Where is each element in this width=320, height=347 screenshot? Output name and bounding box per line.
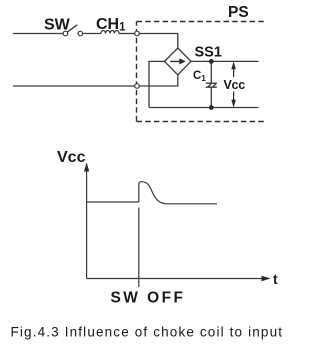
svg-text:t: t bbox=[273, 271, 278, 287]
svg-text:Vcc: Vcc bbox=[224, 78, 246, 92]
svg-text:Vcc: Vcc bbox=[57, 149, 86, 166]
svg-text:SW: SW bbox=[44, 17, 71, 34]
svg-text:PS: PS bbox=[228, 4, 249, 21]
svg-text:SW OFF: SW OFF bbox=[111, 290, 186, 307]
svg-text:C1: C1 bbox=[193, 70, 206, 83]
svg-text:CH1: CH1 bbox=[96, 16, 126, 34]
svg-text:SS1: SS1 bbox=[195, 44, 222, 60]
svg-text:Fig.4.3 Influence of choke coi: Fig.4.3 Influence of choke coil to input bbox=[11, 325, 284, 340]
